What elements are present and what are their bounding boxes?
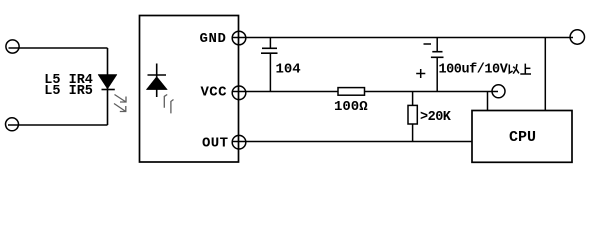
wire GND rail to CPU vertical: [544, 38, 546, 111]
svg-text:OUT: OUT: [202, 136, 228, 152]
wire junction to CPU top: [487, 92, 489, 111]
svg-text:100uf/10V: 100uf/10V: [439, 62, 509, 77]
svg-text:100Ω: 100Ω: [334, 99, 368, 115]
svg-text:104: 104: [276, 62, 301, 78]
svg-text:GND: GND: [200, 31, 227, 47]
received-light arrows: [164, 95, 173, 114]
resistor R2 >20K: [408, 92, 417, 142]
terminal P1 (top-left): [6, 40, 19, 53]
LED D1 IR emitter: [98, 75, 117, 90]
terminal P4 (top-right): [570, 30, 584, 44]
wire OUT rail: [233, 141, 473, 143]
capacitor C1 104: [261, 38, 278, 92]
IR receiver module U1 box: [140, 16, 239, 163]
svg-text:>20K: >20K: [420, 110, 452, 125]
wire VCC rail left: [233, 91, 339, 93]
CJK glyph YI (以): [509, 64, 519, 74]
CPU U2 box: [472, 111, 572, 163]
svg-text:VCC: VCC: [201, 84, 228, 100]
resistor R1 100ohm body: [338, 88, 365, 96]
wire VCC rail right: [365, 91, 499, 93]
emission arrows: [114, 95, 126, 112]
CJK glyph SHANG (上): [520, 64, 531, 74]
photodiode inside U1: [146, 64, 167, 98]
terminal P3 (VCC out): [492, 85, 505, 98]
terminal P2 (bottom-left): [6, 118, 19, 131]
plus sign of C2: [416, 69, 425, 78]
wire top-left horizontal: [9, 47, 108, 49]
wire left vertical: [107, 48, 109, 125]
pin VCC: [232, 86, 246, 100]
pin OUT: [232, 135, 246, 149]
svg-text:CPU: CPU: [509, 129, 536, 146]
pin GND: [232, 31, 246, 45]
wire bottom-left horizontal: [8, 124, 108, 126]
minus sign of C2: [424, 43, 432, 45]
wire GND rail: [233, 37, 574, 39]
svg-text:L5 IR5: L5 IR5: [44, 84, 93, 99]
capacitor C2 electrolytic: [431, 38, 444, 92]
